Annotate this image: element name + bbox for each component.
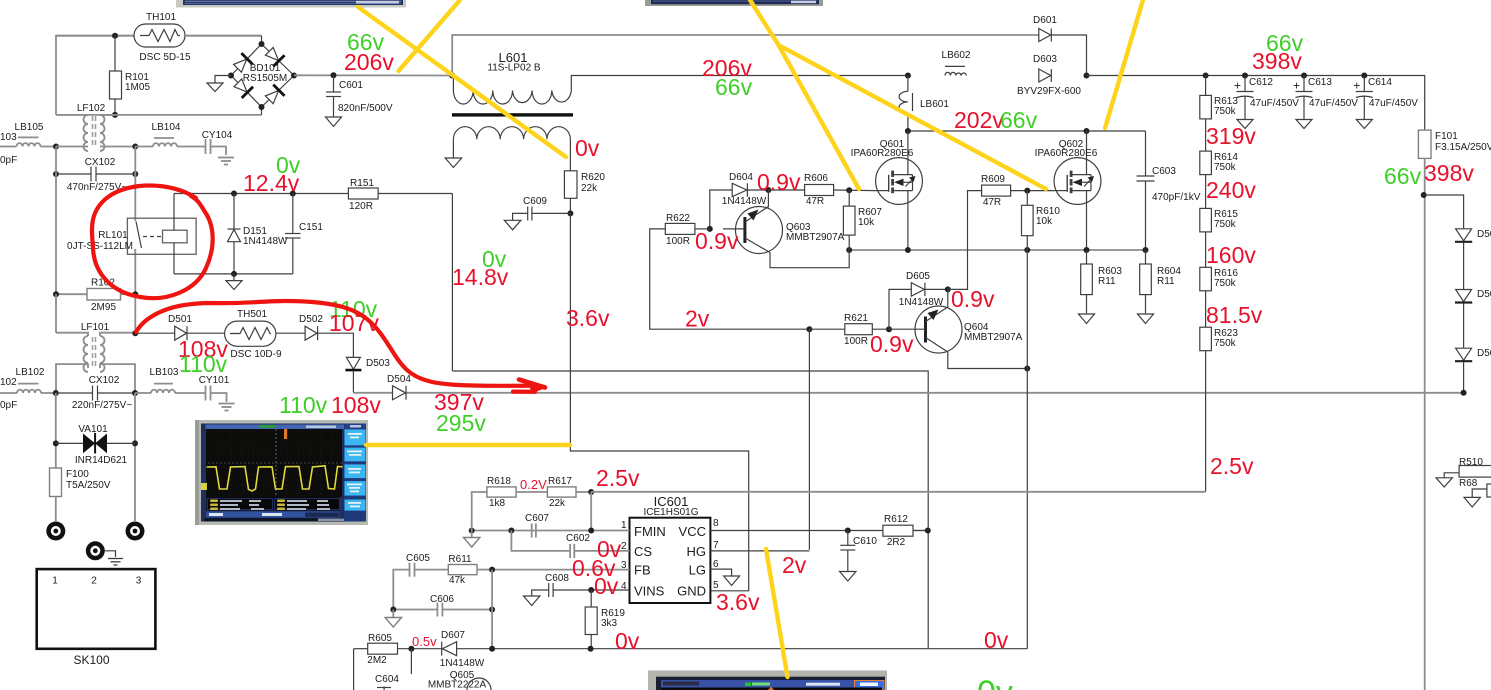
SECTION: right edge	[1436, 457, 1491, 507]
svg-text:295v: 295v	[436, 410, 486, 436]
svg-text:12.4v: 12.4v	[243, 170, 300, 196]
inductor LB102	[16, 367, 56, 393]
svg-text:0v: 0v	[594, 573, 619, 599]
resistor R618	[472, 476, 548, 531]
svg-text:750k: 750k	[1214, 278, 1237, 289]
resistor R612	[883, 514, 928, 548]
svg-text:C613: C613	[1308, 77, 1332, 88]
svg-text:C606: C606	[430, 594, 454, 605]
node R612 right	[925, 528, 931, 534]
svg-text:LB105: LB105	[15, 122, 44, 133]
node Q603 base	[707, 226, 713, 232]
svg-text:47R: 47R	[806, 196, 824, 207]
inductor LB602	[942, 50, 971, 76]
svg-text:C608: C608	[545, 573, 569, 584]
capacitor C610	[840, 531, 878, 582]
node CX102 left	[53, 171, 59, 177]
wire 397v rail	[353, 392, 392, 394]
wire FMIN riser	[590, 492, 592, 531]
svg-text:INR14D621: INR14D621	[75, 455, 128, 466]
capacitor C603	[1137, 131, 1201, 250]
node 2.5v branch	[588, 489, 594, 495]
svg-text:RS1505M: RS1505M	[243, 73, 287, 84]
diode D507	[1455, 348, 1491, 393]
node line2 right	[132, 390, 138, 396]
svg-text:0.5v: 0.5v	[412, 634, 437, 649]
wire TH101 branch	[56, 35, 134, 37]
svg-text:47uF/450V: 47uF/450V	[1250, 98, 1299, 109]
svg-text:LF102: LF102	[77, 103, 106, 114]
node CX102 right	[132, 171, 138, 177]
svg-text:398v: 398v	[1252, 48, 1302, 74]
inductor LB105	[15, 122, 56, 147]
resistor R623	[1200, 291, 1239, 492]
svg-text:D50: D50	[1477, 229, 1491, 240]
ground L601 secondary	[452, 153, 454, 159]
capacitor C607	[525, 513, 549, 538]
socket jack L	[46, 522, 65, 541]
svg-text:1N4148W: 1N4148W	[440, 658, 485, 669]
svg-text:F3.15A/250V: F3.15A/250V	[1435, 142, 1491, 153]
socket jack N	[126, 522, 145, 541]
wire line1 to LF102	[56, 146, 88, 148]
mosfet Q601	[851, 131, 923, 250]
svg-text:R151: R151	[350, 178, 374, 189]
svg-text:0JT-SS-112LM: 0JT-SS-112LM	[67, 241, 133, 252]
node D607 right	[489, 646, 495, 652]
node R102 right	[132, 291, 138, 297]
svg-text:2M2: 2M2	[367, 655, 387, 666]
node C610	[845, 528, 851, 534]
wire pin6 LG ground	[710, 569, 739, 585]
svg-text:LB104: LB104	[152, 122, 181, 133]
svg-text:319v: 319v	[1206, 123, 1256, 149]
resistor R610	[1022, 191, 1061, 250]
svg-text:66v: 66v	[715, 74, 753, 100]
svg-text:2.5v: 2.5v	[596, 465, 640, 491]
wire 398v rail	[1087, 76, 1425, 131]
scope2 partial bottom	[648, 670, 887, 690]
node D605 anode branch	[886, 326, 892, 332]
wire FB riser	[491, 570, 493, 649]
capacitor C608	[524, 573, 630, 606]
svg-text:D503: D503	[366, 358, 390, 369]
node R611 right	[489, 567, 495, 573]
SECTION: scopes	[176, 0, 887, 690]
svg-text:SK100: SK100	[73, 653, 109, 667]
varistor VA101	[56, 424, 135, 466]
svg-text:47R: 47R	[983, 197, 1001, 208]
resistor R621	[809, 313, 889, 347]
node R101 top	[112, 33, 118, 39]
node line2 left	[53, 390, 59, 396]
svg-text:+: +	[1234, 79, 1241, 93]
SECTION: L601 resonant tank	[445, 15, 1491, 690]
svg-text:7: 7	[713, 540, 719, 551]
svg-text:1M05: 1M05	[125, 82, 150, 93]
wire pin8 VCC	[710, 530, 927, 532]
svg-text:11S-LP02 B: 11S-LP02 B	[487, 63, 541, 74]
connector SK100	[37, 569, 156, 667]
wire R151 down	[451, 194, 453, 372]
wire pin1 FMIN	[472, 530, 630, 532]
capacitor C604 partial	[375, 674, 399, 690]
wire 2.5v rail	[591, 491, 1205, 493]
svg-text:220nF/275V~: 220nF/275V~	[72, 400, 132, 411]
svg-text:0pF: 0pF	[0, 400, 17, 411]
resistor R102	[56, 278, 135, 314]
svg-text:0.9v: 0.9v	[870, 331, 914, 357]
wire relay coil feed	[173, 194, 175, 231]
svg-text:C604: C604	[375, 674, 399, 685]
svg-text:R617: R617	[548, 476, 572, 487]
svg-text:C151: C151	[299, 222, 323, 233]
svg-text:DSC 10D-9: DSC 10D-9	[230, 349, 282, 360]
node R610 top	[1024, 188, 1030, 194]
node R607 bottom	[846, 247, 852, 253]
svg-text:0.9v: 0.9v	[757, 169, 801, 195]
svg-text:CS: CS	[634, 544, 652, 559]
svg-text:CX102: CX102	[85, 157, 116, 168]
marker red circle relay	[92, 186, 213, 299]
thermistor TH101	[134, 12, 191, 63]
svg-text:MMBT2907A: MMBT2907A	[964, 332, 1023, 343]
svg-text:CX102: CX102	[89, 375, 120, 386]
svg-text:C612: C612	[1249, 77, 1273, 88]
wire snubber branch	[1425, 195, 1464, 228]
diode D605	[889, 271, 948, 329]
SECTION: lower AC / LF101	[0, 322, 235, 667]
ground C605 C606	[385, 610, 401, 628]
diode D603	[1017, 54, 1081, 97]
svg-text:F100: F100	[66, 469, 89, 480]
wire yellow to 206v node	[399, 0, 461, 71]
scope3 partial top left	[176, 0, 406, 8]
wire left vertical	[55, 147, 57, 295]
wire TH101 to bridge	[185, 35, 262, 37]
node diode chain to rail	[1461, 390, 1467, 396]
capacitor CX102	[56, 157, 135, 193]
capacitor C606	[393, 594, 492, 617]
node Q603 emitter	[765, 187, 771, 193]
svg-text:+: +	[1293, 79, 1300, 93]
svg-text:1N4148W: 1N4148W	[722, 196, 767, 207]
capacitor CY104	[202, 130, 233, 155]
svg-text:750k: 750k	[1214, 219, 1237, 230]
svg-text:0v: 0v	[977, 674, 1013, 690]
capacitor C602	[511, 531, 629, 559]
node R102 left	[53, 291, 59, 297]
svg-text:202v: 202v	[954, 107, 1004, 133]
svg-text:T5A/250V: T5A/250V	[66, 480, 111, 491]
resistor chain R613	[1200, 76, 1239, 119]
relay RL101	[67, 218, 196, 254]
svg-text:103: 103	[0, 132, 17, 143]
transformer L601	[452, 50, 620, 158]
wire R610 lower vertical	[1026, 250, 1028, 649]
thermistor TH501	[225, 309, 282, 360]
marker red arrow path	[136, 301, 539, 386]
wire left vertical lower	[55, 294, 57, 333]
wire yellow fork Q601 gate	[779, 45, 860, 189]
svg-text:R621: R621	[844, 313, 868, 324]
diode D506	[1455, 289, 1491, 348]
svg-text:0.2V: 0.2V	[520, 477, 547, 492]
svg-text:1: 1	[621, 520, 627, 531]
wire bridge output	[294, 74, 452, 76]
svg-text:2v: 2v	[782, 552, 807, 578]
mosfet Q602	[1035, 131, 1101, 250]
wire yellow HG to scope2	[766, 549, 788, 677]
svg-text:110v: 110v	[279, 392, 328, 418]
svg-text:D604: D604	[729, 172, 753, 183]
svg-text:TH101: TH101	[146, 12, 176, 23]
capacitor C605	[393, 553, 448, 610]
node C613 top	[1301, 73, 1307, 79]
wire mains line1	[0, 146, 17, 148]
svg-text:750k: 750k	[1214, 162, 1237, 173]
svg-text:IPA60R280E6: IPA60R280E6	[1035, 148, 1098, 159]
resistor R605	[367, 633, 397, 666]
node C614 top	[1361, 73, 1367, 79]
svg-text:0v: 0v	[615, 628, 640, 654]
inductor LB601	[899, 76, 949, 132]
resistor R151	[348, 178, 378, 212]
resistor R622	[665, 213, 710, 247]
wire top rail live	[56, 36, 262, 115]
svg-text:110v: 110v	[179, 351, 228, 377]
svg-text:LB102: LB102	[16, 367, 45, 378]
node 202v left	[905, 128, 911, 134]
ground FMIN	[464, 531, 480, 548]
wire TH501-D502	[276, 332, 305, 334]
node FMIN riser bottom	[588, 528, 594, 534]
diode D501	[168, 314, 192, 340]
wire 2v gate line	[650, 229, 810, 329]
wire yellow to 202v node	[1105, 0, 1143, 128]
svg-text:66v: 66v	[1384, 163, 1422, 189]
diode D607	[440, 630, 485, 669]
svg-text:2: 2	[91, 576, 97, 587]
resistor R606	[768, 173, 875, 207]
svg-text:F101: F101	[1435, 131, 1458, 142]
node line1 right	[132, 144, 138, 150]
svg-text:C602: C602	[566, 533, 590, 544]
diode D504	[387, 374, 411, 400]
svg-text:MMBT2907A: MMBT2907A	[786, 232, 845, 243]
svg-text:VA101: VA101	[78, 424, 108, 435]
svg-text:C603: C603	[1152, 166, 1176, 177]
capacitor C614	[1353, 76, 1418, 129]
wire D502 corner	[318, 333, 354, 357]
svg-text:C609: C609	[523, 196, 547, 207]
node R620 bottom	[567, 210, 573, 216]
svg-text:R68: R68	[1459, 478, 1478, 489]
node R610 rail cross	[1024, 247, 1030, 253]
svg-text:R11: R11	[1157, 276, 1175, 287]
svg-text:VINS: VINS	[634, 584, 665, 599]
capacitor C609	[504, 196, 570, 230]
svg-text:160v: 160v	[1206, 242, 1256, 268]
svg-text:BYV29FX-600: BYV29FX-600	[1017, 86, 1081, 97]
capacitor C601	[326, 75, 393, 126]
wire yellow scope4 stem	[750, 0, 779, 45]
inductor LB104	[135, 122, 205, 147]
wire mains line2	[0, 392, 17, 394]
fuse F100	[50, 468, 111, 521]
wire 206v rail	[620, 75, 908, 77]
wire yellow scope1 to hv node	[366, 443, 570, 447]
svg-text:D601: D601	[1033, 15, 1057, 26]
ground CY101 earth	[219, 404, 235, 411]
svg-text:R606: R606	[804, 173, 828, 184]
node C603 rail	[1143, 247, 1149, 253]
node ground branch	[231, 271, 237, 277]
wire HG riser	[808, 329, 810, 550]
node C151 top	[290, 191, 296, 197]
svg-text:IPA60R280E6: IPA60R280E6	[851, 148, 914, 159]
capacitor C612	[1234, 76, 1299, 129]
svg-text:LF101: LF101	[81, 322, 110, 333]
wire D601 top loop	[452, 35, 1039, 76]
svg-text:D50: D50	[1477, 289, 1491, 300]
wire D501 row	[135, 332, 174, 334]
svg-text:VCC: VCC	[679, 524, 706, 539]
svg-text:RL101: RL101	[98, 230, 128, 241]
wire bridge bottom feed	[56, 114, 262, 116]
svg-text:6: 6	[713, 559, 719, 570]
wire D501-TH501	[187, 332, 225, 334]
node Q602 drain	[1084, 128, 1090, 134]
node R605 right	[408, 646, 414, 652]
svg-text:240v: 240v	[1206, 177, 1256, 203]
diode D604	[710, 172, 769, 229]
svg-text:1: 1	[52, 576, 58, 587]
svg-text:47k: 47k	[449, 575, 466, 586]
diode D502	[299, 314, 323, 340]
node D151 top	[231, 191, 237, 197]
svg-text:398v: 398v	[1424, 160, 1474, 186]
transistor Q604	[889, 289, 1027, 368]
ground bridge negative	[207, 76, 231, 92]
wire yellow fork Q602 gate	[779, 45, 1047, 189]
wire relay bottom return	[174, 273, 293, 275]
SECTION: doubler diodes row	[132, 309, 1464, 400]
svg-text:D50: D50	[1477, 348, 1491, 359]
svg-text:750k: 750k	[1214, 106, 1237, 117]
node FMIN gnd	[469, 528, 475, 534]
svg-text:100R: 100R	[844, 336, 868, 347]
scope4 partial top right	[645, 0, 823, 6]
svg-text:ICE1HS01G: ICE1HS01G	[643, 507, 698, 518]
svg-text:102: 102	[0, 377, 17, 388]
wire R609 left riser	[948, 191, 982, 290]
resistor R614	[1200, 119, 1239, 175]
diode D151	[228, 194, 289, 274]
node R101 bottom	[112, 112, 118, 118]
resistor R615	[1200, 175, 1239, 232]
svg-text:D504: D504	[387, 374, 411, 385]
svg-text:10k: 10k	[1036, 216, 1053, 227]
resistor R609	[981, 174, 1054, 208]
resistor R68 partial	[1459, 478, 1491, 507]
svg-text:3: 3	[136, 576, 142, 587]
wire pin7 HG	[710, 550, 809, 552]
node C602 branch	[508, 528, 514, 534]
wire source rail	[849, 249, 1145, 251]
wire pin3 FB	[492, 569, 629, 571]
marker red arrow head	[519, 380, 545, 388]
svg-text:2M95: 2M95	[91, 302, 116, 313]
svg-text:+: +	[1353, 79, 1360, 93]
wire hv return to IC	[570, 213, 748, 590]
svg-text:R620: R620	[581, 172, 605, 183]
node R619 bottom	[588, 646, 594, 652]
node snubber branch	[1421, 192, 1427, 198]
node C601	[331, 72, 337, 78]
svg-text:C614: C614	[1368, 77, 1392, 88]
node C606 left gnd	[390, 607, 396, 613]
node C606 right	[489, 607, 495, 613]
svg-text:C607: C607	[525, 513, 549, 524]
svg-text:10k: 10k	[858, 217, 875, 228]
node VINS R619	[588, 587, 594, 593]
inductor LB103	[135, 367, 206, 393]
svg-text:R11: R11	[1098, 276, 1116, 287]
resistor R607	[843, 190, 882, 250]
resistor R611	[448, 554, 492, 586]
capacitor CX102 second	[56, 375, 135, 411]
node C612 top	[1242, 73, 1248, 79]
svg-text:D501: D501	[168, 314, 192, 325]
svg-text:206v: 206v	[344, 49, 394, 75]
diode D505	[1455, 229, 1491, 289]
svg-text:100R: 100R	[666, 236, 690, 247]
svg-text:TH501: TH501	[237, 309, 267, 320]
svg-text:2.5v: 2.5v	[1210, 453, 1254, 479]
svg-text:C605: C605	[406, 553, 430, 564]
transistor Q603	[723, 190, 849, 268]
wire 12v rail	[174, 193, 348, 195]
wire relay vertical	[134, 147, 136, 222]
svg-text:1k8: 1k8	[489, 498, 506, 509]
wire VA101 verticals	[55, 393, 57, 468]
svg-text:120R: 120R	[349, 201, 373, 212]
SECTION: yellow highlights	[358, 0, 1143, 677]
svg-text:R605: R605	[368, 633, 392, 644]
capacitor C151	[285, 194, 323, 274]
svg-text:8: 8	[713, 518, 719, 529]
chip IC601 body	[621, 494, 719, 603]
svg-text:R609: R609	[981, 174, 1005, 185]
transistor Q605 partial	[411, 649, 491, 690]
svg-text:D607: D607	[441, 630, 465, 641]
node Q604 emitter	[945, 286, 951, 292]
resistor R101	[110, 36, 151, 115]
svg-text:750k: 750k	[1214, 338, 1237, 349]
svg-text:R622: R622	[666, 213, 690, 224]
svg-text:108v: 108v	[331, 392, 381, 418]
svg-text:FMIN: FMIN	[634, 524, 666, 539]
SECTION: IC601	[354, 476, 1206, 690]
svg-text:MMBT2222A: MMBT2222A	[428, 680, 487, 690]
svg-text:0.9v: 0.9v	[951, 286, 995, 312]
svg-text:0pF: 0pF	[0, 155, 17, 166]
node Q601 source	[905, 247, 911, 253]
svg-text:820nF/500V: 820nF/500V	[338, 103, 393, 114]
socket jack earth	[86, 541, 123, 565]
svg-text:D502: D502	[299, 314, 323, 325]
